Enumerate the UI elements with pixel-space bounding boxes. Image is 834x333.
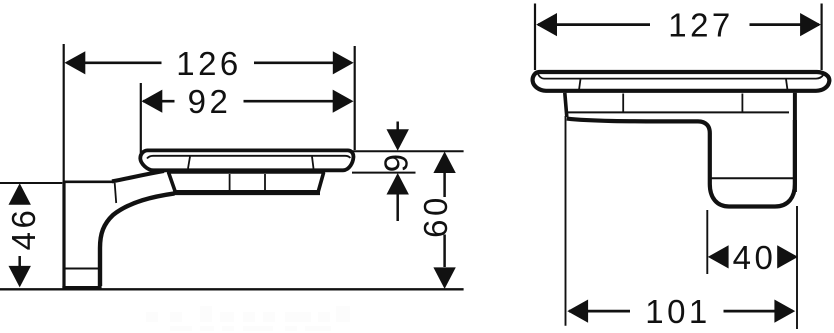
band bottom line front view: [567, 111, 789, 113]
arrow right of 127: [800, 13, 821, 36]
60 lower tail: [443, 235, 446, 268]
arrow left of 92: [142, 90, 163, 113]
wire: extension line left of 126 / wall plane: [63, 44, 65, 182]
bracket shoulder and outline front view: [567, 119, 795, 207]
dish inner rim line side view: [147, 156, 350, 159]
arrow up of 46: [9, 183, 31, 205]
arrow left of 101: [567, 300, 588, 323]
dimension 126 line: [67, 61, 162, 64]
wire: extension line right of 126/92: [354, 46, 356, 150]
plate/arm junction line: [115, 183, 117, 203]
svg-text:92: 92: [188, 83, 232, 120]
46 line segment: [18, 256, 21, 266]
arrow right of 40: [777, 245, 798, 268]
dish rim tick left side view: [188, 157, 190, 169]
arm inner curve side view: [100, 193, 175, 286]
wall plate inner line: [66, 268, 99, 270]
arm top curve side view: [112, 171, 164, 181]
soap dish side view outline: [140, 150, 353, 170]
wall plate bottom edge: [62, 286, 101, 290]
svg-text:127: 127: [668, 7, 734, 44]
wall plate right edge lower: [98, 252, 101, 289]
svg-text:46: 46: [5, 207, 42, 251]
soap dish front view outline: [533, 72, 830, 91]
arrow down of 46: [9, 266, 31, 288]
arrow left of 40: [708, 245, 729, 268]
wire: extension line left of 40: [706, 210, 708, 274]
band divider 2 side view: [264, 174, 266, 191]
9 upper tail: [396, 122, 399, 132]
wire: extension line left of 127: [534, 4, 536, 71]
svg-text:9: 9: [378, 150, 415, 172]
dimension 101 line: [569, 310, 630, 313]
faint watermark blocks: [146, 306, 350, 331]
band divider 2 front view: [741, 94, 743, 113]
holder band bottom edge side view: [173, 191, 320, 195]
dish inner rim line front view: [538, 74, 824, 79]
dish rim tick left front view: [579, 79, 581, 90]
dish rim tick right front view: [786, 79, 788, 90]
46 top reference line: [0, 182, 62, 184]
wall plate top edge: [63, 181, 114, 184]
band left edge front view: [565, 93, 567, 117]
wire: extension line right of 101: [796, 206, 798, 329]
long bottom reference line: [0, 288, 464, 290]
arrow right of 101: [774, 300, 795, 323]
dimension 92 line: [143, 100, 175, 103]
arrow up of 9: [387, 173, 409, 195]
60 upper tail: [443, 172, 446, 197]
arrow left of 126: [65, 51, 86, 74]
9 lower tail: [396, 193, 399, 221]
arrow down of 9: [387, 129, 409, 151]
9 bottom reference line: [352, 172, 416, 174]
wire: extension line right of 127: [820, 4, 822, 71]
wall plate left edge: [62, 182, 65, 289]
arrow right of 126: [333, 51, 354, 74]
9 top reference line: [350, 150, 464, 152]
bracket inner line front view: [710, 177, 794, 179]
arrow right of 92: [333, 90, 354, 113]
band divider 1 front view: [622, 94, 624, 113]
band/bracket right edge front view: [793, 93, 797, 192]
wire: extension line left of 92: [140, 83, 142, 153]
holder band side view: [169, 172, 324, 192]
dish rim tick right side view: [312, 157, 314, 169]
band divider 1 side view: [229, 174, 231, 191]
arrow left of 127: [536, 13, 557, 36]
dimension 127 line: [538, 23, 650, 26]
svg-text:60: 60: [417, 194, 454, 238]
svg-text:40: 40: [733, 239, 777, 276]
wire: extension line left of 101 / body edge: [565, 116, 567, 326]
arrow down of 60: [433, 267, 455, 289]
band top edge side view: [167, 171, 325, 173]
arrow up of 60: [433, 152, 455, 174]
svg-text:126: 126: [176, 45, 242, 82]
svg-text:101: 101: [645, 293, 711, 330]
